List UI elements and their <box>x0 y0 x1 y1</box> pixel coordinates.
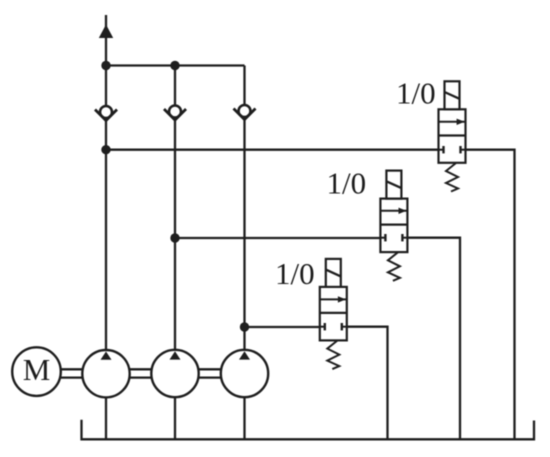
svg-text:1/0: 1/0 <box>275 256 315 291</box>
wire: tank outlet vertical above junction A <box>105 15 107 66</box>
wire: valve 3 output to tank rail <box>347 327 388 440</box>
shaft pump 1 to pump 2 (double line) <box>130 369 152 377</box>
wire: vertical line 3 (pump 3 to header corner) <box>243 66 245 353</box>
wire: pump 2 drain to tank rail <box>174 396 176 439</box>
shaft motor to pump 1 (double line) <box>61 369 83 377</box>
node C junction dot (valve 2 feed) <box>170 233 179 242</box>
pump P3 <box>221 350 268 397</box>
check valve CV1 <box>95 106 117 121</box>
svg-text:1/0: 1/0 <box>327 166 367 201</box>
valve V1 (2/2 solenoid valve, top right) <box>439 109 466 163</box>
valve V3 (2/2 solenoid valve, bottom) <box>320 287 347 341</box>
solenoid of V2 <box>386 171 401 199</box>
wire: valve 1 output to tank rail <box>466 150 515 440</box>
node B junction dot (valve 1 feed) <box>101 145 110 154</box>
motor M <box>12 347 61 396</box>
svg-text:1/0: 1/0 <box>396 75 436 110</box>
wire: pump 1 drain to tank rail <box>105 396 107 439</box>
wire: top header from node A to corner above pump 3 <box>106 64 245 66</box>
shaft pump 2 to pump 3 (double line) <box>199 369 221 377</box>
svg-text:M: M <box>23 352 51 387</box>
wire: valve 2 input line from node C <box>175 237 380 239</box>
wire: valve 2 output to tank rail <box>407 238 460 440</box>
check valve CV2 <box>164 106 186 121</box>
tank rail (bottom suction line with raised ends) <box>82 420 535 440</box>
spring of V1 <box>446 163 458 192</box>
check valve CV3 <box>234 105 256 120</box>
node junction dot on header at line 2 <box>170 61 179 70</box>
solenoid of V3 <box>326 259 341 287</box>
wire: pump 3 drain to tank rail <box>243 396 245 439</box>
spring of V2 <box>388 252 400 280</box>
valve V2 (2/2 solenoid valve, middle) <box>380 199 407 253</box>
pump P1 <box>82 350 129 397</box>
node D junction dot (valve 3 feed) <box>240 322 249 331</box>
spring of V3 <box>327 341 339 370</box>
solenoid of V1 <box>445 81 460 109</box>
flow arrow to tank (filled triangle) <box>99 25 113 39</box>
wire: vertical line 1 (pump 1 to header) <box>105 66 107 353</box>
wire: vertical line 2 (pump 2 to header) <box>174 66 176 353</box>
wire: valve 1 input line from node B <box>106 149 439 151</box>
wire: valve 3 input line from node D <box>245 326 320 328</box>
pump P2 <box>151 350 198 397</box>
node A junction dot <box>101 61 110 70</box>
